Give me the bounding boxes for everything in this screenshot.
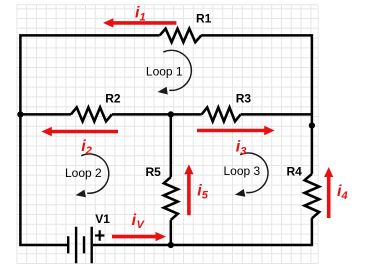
svg-text:R1: R1 <box>196 11 212 25</box>
svg-text:Loop 3: Loop 3 <box>224 164 261 178</box>
svg-text:R4: R4 <box>287 165 303 179</box>
svg-text:V1: V1 <box>95 212 110 226</box>
svg-text:Loop 1: Loop 1 <box>146 64 183 78</box>
svg-text:Loop 2: Loop 2 <box>65 166 102 180</box>
svg-text:R3: R3 <box>236 92 252 106</box>
svg-text:R2: R2 <box>105 91 121 105</box>
svg-text:R5: R5 <box>146 165 162 179</box>
